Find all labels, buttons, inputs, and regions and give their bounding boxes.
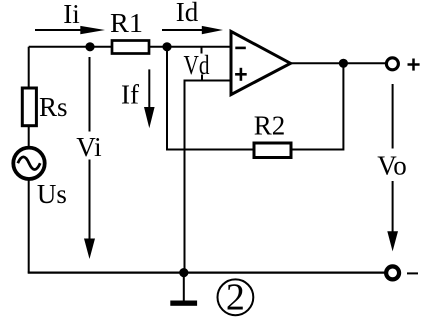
- op-amp U1: [231, 31, 291, 94]
- wire: bottom ground rail: [28, 271, 385, 273]
- label Vd with measurement ticks: [184, 48, 210, 81]
- terminal: output + terminal: [386, 58, 398, 70]
- svg-text:Us: Us: [37, 179, 67, 209]
- polarity -: minus sign at output bottom: [407, 272, 418, 274]
- svg-text:Rs: Rs: [39, 92, 68, 122]
- current arrow Id: [162, 26, 223, 34]
- current arrow Ii: [35, 26, 105, 34]
- node: inverting node junction dot: [162, 42, 171, 51]
- AC source Us: [13, 148, 44, 179]
- svg-text:If: If: [121, 80, 139, 110]
- svg-text:R2: R2: [254, 111, 286, 141]
- ground: [170, 301, 197, 306]
- resistor Rs: [22, 88, 36, 126]
- voltage arrow Vo: [387, 84, 398, 251]
- svg-text:Vi: Vi: [76, 132, 101, 162]
- node: output junction dot: [339, 59, 348, 68]
- wire: top input wire from source to op-amp inverting input: [29, 46, 231, 48]
- wire: non-inverting input wire down to ground rail: [185, 81, 232, 273]
- current arrow If: [144, 69, 155, 128]
- node: ground junction dot: [179, 268, 188, 277]
- svg-text:Vd: Vd: [184, 50, 210, 80]
- voltage arrow Vi: [84, 57, 95, 259]
- figure number 2 (circled): [218, 277, 254, 319]
- wire: op-amp output to + terminal: [291, 62, 386, 64]
- wire: ground stub below rail: [183, 273, 185, 301]
- wire: feedback branch from inverting node down and right to R2: [167, 47, 254, 150]
- resistor R1: [112, 41, 149, 54]
- wire: left branch (source branch) vertical: [28, 47, 30, 273]
- node: input node junction dot: [85, 42, 94, 51]
- wire: from R2 right side to output node: [291, 63, 344, 149]
- svg-text:Id: Id: [176, 0, 199, 27]
- svg-text:Ii: Ii: [63, 0, 80, 29]
- resistor R2: [254, 143, 291, 158]
- svg-text:2: 2: [226, 277, 245, 319]
- polarity +: plus sign at output top: [408, 59, 420, 71]
- svg-text:Vo: Vo: [377, 151, 407, 181]
- terminal: output - terminal: [386, 266, 399, 279]
- svg-text:R1: R1: [110, 8, 143, 38]
